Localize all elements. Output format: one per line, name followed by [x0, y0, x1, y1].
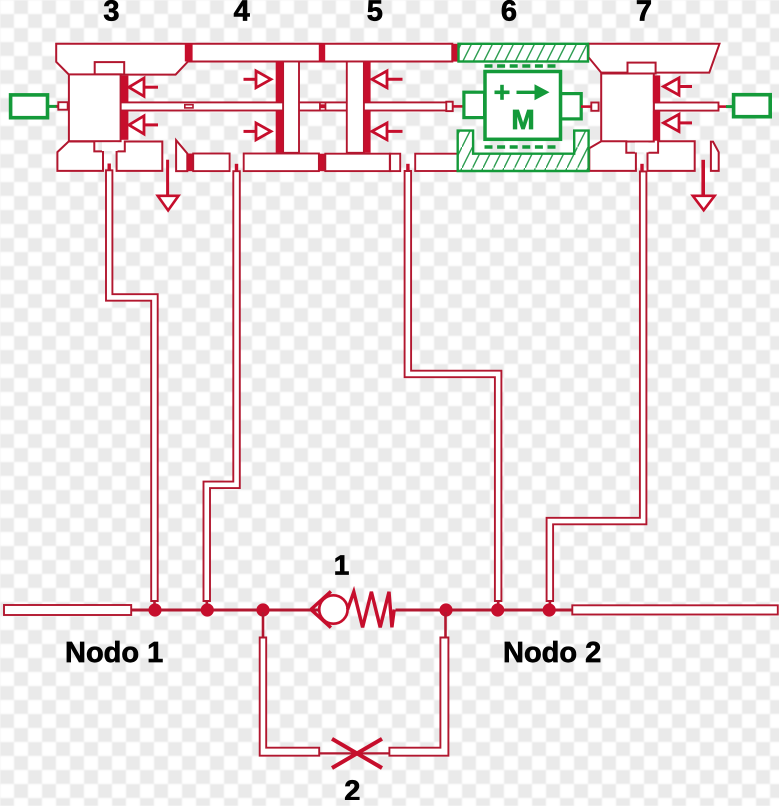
- seat valve 4: [276, 62, 283, 103]
- bus hollow rod left: [4, 605, 131, 615]
- wire B junction stub: [206, 600, 209, 610]
- loop left solid stub: [262, 612, 265, 639]
- motor direction arrow: [517, 91, 536, 94]
- loop right hollow wire: [389, 638, 448, 756]
- svg-text:4: 4: [234, 0, 250, 27]
- link to green box right (red part): [719, 105, 728, 108]
- wire B from valve 3 drain 2 to Nodo 1: [204, 171, 240, 601]
- bus hollow rod right: [572, 605, 778, 614]
- valve 7 body: [601, 74, 654, 142]
- motor 6 top hatched bar: [459, 44, 589, 62]
- top divider 4/5: [319, 44, 325, 62]
- svg-text:1: 1: [334, 550, 350, 581]
- svg-text:M: M: [511, 104, 534, 135]
- valve 3 body: [69, 74, 121, 141]
- svg-text:Nodo 1: Nodo 1: [65, 637, 163, 669]
- motor plus sign: [495, 91, 510, 95]
- node dot 6: [543, 603, 556, 616]
- bottom wall valve 3 left: [57, 142, 103, 171]
- motor left port: [464, 92, 485, 117]
- wire A from valve 3 drain to Nodo 1: [106, 170, 158, 601]
- check valve 1 ball circle: [319, 595, 347, 623]
- pilot arrows valve 5: [372, 71, 387, 140]
- pilot arrows valve 3: [129, 78, 144, 134]
- drain tick D: [406, 164, 409, 171]
- check valve 1 spring: [348, 592, 395, 628]
- rod joint neck 1: [185, 105, 193, 108]
- valve 7 top manifold bar: [589, 44, 720, 73]
- motor right port: [561, 94, 582, 119]
- bottom wall 4 left: [193, 154, 229, 172]
- check valve 1 arrowhead: [311, 591, 331, 609]
- link motor right to valve 7: [581, 105, 592, 108]
- wire E junction stub: [549, 600, 552, 610]
- svg-text:3: 3: [103, 0, 119, 27]
- seat valve 7: [653, 75, 660, 102]
- tank arrow valve 7: [701, 160, 705, 196]
- drain tick E: [640, 164, 643, 172]
- top divider 3/4: [185, 44, 193, 62]
- wire A junction stub: [153, 600, 156, 610]
- seat valve 3: [121, 76, 128, 103]
- cap block valve 7: [628, 63, 656, 74]
- motor bottom dashed line: [485, 145, 561, 148]
- top end bar at motor: [452, 44, 458, 62]
- svg-text:Nodo 2: Nodo 2: [503, 637, 601, 669]
- port A green box left: [11, 95, 48, 118]
- svg-text:5: 5: [367, 0, 383, 27]
- svg-text:6: 6: [501, 0, 517, 27]
- node dot 5: [491, 603, 504, 616]
- bottom divider 4/5: [319, 154, 325, 172]
- bottom wall 5/6 stub: [390, 154, 400, 171]
- svg-text:2: 2: [344, 776, 360, 801]
- drain tick A: [108, 164, 111, 171]
- cap block valve 3: [95, 62, 125, 74]
- valve 7 spool rod: [654, 103, 719, 111]
- motor body U1: [485, 72, 561, 140]
- node dot 3: [256, 603, 269, 616]
- pilot arrows valve 7: [664, 78, 680, 132]
- drain tick B: [235, 164, 238, 171]
- loop right solid stub: [444, 612, 447, 639]
- bus solid line right: [396, 609, 573, 612]
- node dot 1: [148, 603, 161, 616]
- node dot 4: [439, 603, 452, 616]
- bottom slant piece 3/4: [176, 140, 187, 171]
- rod joint neck 2: [320, 104, 325, 108]
- port B green box right: [734, 95, 771, 117]
- bus solid line left: [131, 609, 319, 612]
- pilot arrows valve 4: [256, 71, 271, 140]
- stub rod left of valve 7: [591, 103, 598, 111]
- bottom divider 3/4: [187, 154, 193, 172]
- bottom wall valve 3 right: [117, 142, 163, 171]
- svg-text:7: 7: [636, 0, 652, 27]
- loop left hollow wire: [260, 638, 320, 756]
- main spool rod: [121, 102, 453, 110]
- link to green box right (green part): [726, 105, 733, 108]
- seat valve 5: [364, 62, 371, 103]
- stub rod left of valve 3: [58, 102, 67, 110]
- bottom wall valve 7 right: [648, 141, 695, 171]
- bottom wall 6 left piece: [415, 154, 458, 171]
- shutoff valve 2 X: [332, 739, 382, 768]
- motor top dashed line: [485, 64, 561, 67]
- valve 7 T-slot white patch: [635, 142, 649, 152]
- link green box left (green part): [48, 105, 57, 108]
- bottom wall valve 7 left: [589, 141, 636, 171]
- spool box valve 5: [347, 62, 364, 153]
- valve 3 T-slot white patch: [102, 142, 118, 151]
- top manifold bar (valves 3-5): [56, 44, 452, 75]
- motor 6 bottom hatched channel: [458, 131, 589, 171]
- node dot 2: [201, 603, 214, 616]
- bottom wall 4 right: [244, 154, 319, 172]
- link green box left (red part): [57, 105, 60, 108]
- bottom wall 5: [325, 154, 390, 171]
- shutoff valve 2 line: [319, 752, 389, 754]
- bottom wall right end piece: [711, 142, 719, 171]
- spool box valve 4: [283, 62, 299, 153]
- tank arrow valve 3: [166, 160, 169, 196]
- wire D from motor drain to Nodo 2: [405, 171, 502, 601]
- wire D junction stub: [497, 600, 500, 610]
- rod end cap: [446, 102, 452, 111]
- wire E from valve 7 drain to Nodo 2: [547, 171, 647, 601]
- link rod to motor left: [453, 105, 465, 108]
